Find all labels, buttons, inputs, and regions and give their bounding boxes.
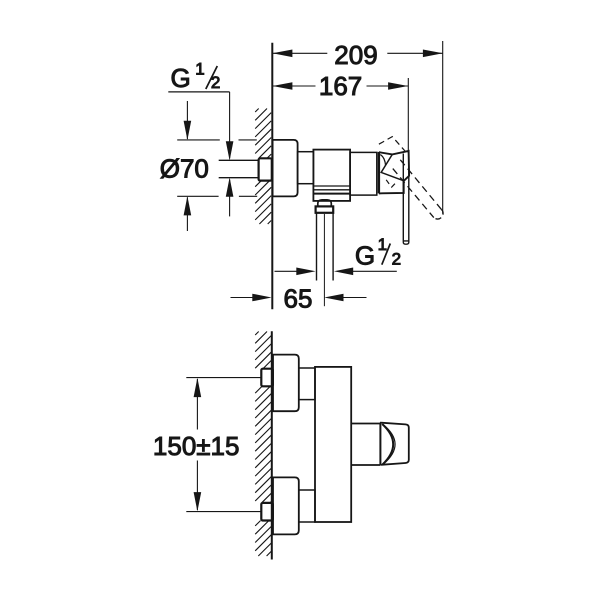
O70 lower arrow [186,197,188,231]
wall hatching (bottom view) [255,332,271,557]
svg-text:65: 65 [284,284,313,314]
lower union nut (front view) [261,503,273,521]
dimension 65 line left [231,297,253,299]
svg-text:2: 2 [211,73,220,92]
lever handle solid (down position) [403,153,409,241]
handle knob crescent [382,424,393,465]
body lower ring lines [313,186,350,190]
upper union nut (front view) [261,369,273,387]
handle neck (front view) [351,424,380,466]
shower hose outlet lines [317,213,334,281]
O70 extension line bottom [177,195,257,197]
escutcheon (side view) [273,140,298,197]
union nut behind wall (side view) [259,158,272,180]
G 1/2 bottom leader left arrow [275,270,298,272]
svg-text:150±15: 150±15 [153,431,240,461]
lower connector (front view) [299,490,315,522]
handle knob (front view) [380,423,409,465]
hose center line [323,214,325,306]
svg-text:G: G [171,63,191,93]
shower hose dome shoulder [318,200,332,206]
svg-text:209: 209 [334,40,377,70]
lever handle dashed (up position) [400,160,441,209]
dimension 209 line [273,52,443,54]
svg-text:1: 1 [195,59,204,78]
extension line right of 167 (to solid lever) [407,78,409,153]
O70 upper arrow [186,101,188,139]
svg-text:167: 167 [319,71,362,101]
shower hose nut [316,206,334,212]
G 1/2 top leader upper shaft and arrow [229,92,231,159]
handle hub (side view, faceted) [378,152,380,194]
dashed hub outline (alternate handle position) [379,137,406,152]
upper connector (front view) [299,368,315,400]
lower inlet escutcheon (front view) [273,477,299,534]
dimension 167 line [273,85,408,87]
extension line right of 209 (to dashed lever tip) [442,41,444,214]
upper inlet escutcheon (front view) [273,355,299,412]
dimension 209 arrowheads [272,50,443,58]
dimension 150 extension line bottom [186,511,261,513]
dimension 150 extension line top [186,377,261,379]
svg-text:G: G [355,240,375,270]
svg-text:2: 2 [392,250,401,269]
G 1/2 top leader lower shaft and arrow [229,180,231,217]
wall hatching (top view) [255,109,271,225]
svg-text:1: 1 [378,235,387,254]
dimension 150 arrowheads [194,378,202,512]
connector neck escutcheon-body (side view) [298,152,314,184]
supply pipe behind wall [219,160,259,177]
svg-text:Ø70: Ø70 [160,154,209,184]
O70 extension line top [177,139,257,141]
dimension 150 vertical line [196,379,198,510]
mixer body (front view) [315,367,351,522]
wall line (top view, also extension line for 209/167/65) [271,43,273,310]
mixer body (side view) [313,150,350,201]
label G 1/2 top underline [168,91,229,93]
cartridge section (side view) [350,152,377,195]
dimension 65 line right [344,297,367,299]
wall line (bottom view) [271,331,273,559]
dimension 167 arrowheads [272,82,408,90]
G 1/2 bottom leader right arrow [352,270,397,272]
